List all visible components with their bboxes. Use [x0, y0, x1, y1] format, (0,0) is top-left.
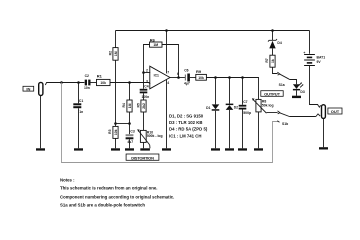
ground	[74, 148, 83, 150]
IN label	[23, 86, 34, 91]
resistor R1	[97, 74, 111, 86]
capacitor C1	[73, 99, 83, 114]
svg-text:100n: 100n	[142, 95, 150, 99]
svg-text:4µ7: 4µ7	[127, 140, 133, 144]
svg-text:R6: R6	[150, 37, 156, 42]
svg-text:C2: C2	[85, 74, 89, 78]
svg-text:C7: C7	[243, 100, 247, 104]
svg-text:R2: R2	[108, 51, 112, 55]
out jack tip contact	[316, 114, 320, 117]
potentiometer R8	[252, 98, 278, 113]
node D2 tap	[228, 76, 231, 79]
capacitor C4	[140, 84, 150, 99]
wire P2 to ground	[258, 112, 260, 148]
input jack J1	[39, 82, 48, 95]
wire feedback right	[162, 45, 179, 78]
svg-text:4µ7: 4µ7	[184, 82, 190, 86]
svg-text:D1: D1	[206, 106, 210, 110]
svg-text:10n: 10n	[84, 86, 90, 90]
svg-text:7: 7	[167, 71, 169, 75]
svg-text:Component numbering according: Component numbering according to origina…	[60, 195, 174, 200]
zener D4	[268, 39, 282, 48]
svg-text:10k: 10k	[198, 76, 204, 80]
svg-text:DISTORTION: DISTORTION	[131, 155, 154, 160]
svg-text:C3: C3	[130, 129, 134, 133]
node C1 tap	[77, 81, 80, 84]
svg-text:IC1: IC1	[154, 74, 159, 78]
svg-text:D1, D2 : SG 9150: D1, D2 : SG 9150	[169, 113, 204, 118]
ground	[140, 148, 150, 150]
svg-text:+: +	[149, 81, 151, 85]
svg-text:OUT: OUT	[331, 109, 340, 114]
wire C3 top	[129, 124, 131, 135]
battery BAT1	[303, 51, 325, 66]
svg-text:BAT1: BAT1	[317, 56, 326, 60]
svg-text:1n: 1n	[79, 110, 83, 114]
wire D1 to ground	[215, 111, 217, 149]
ground	[319, 147, 328, 149]
ground	[211, 148, 220, 150]
svg-text:1k: 1k	[271, 59, 275, 63]
capacitor C2	[84, 74, 91, 90]
node C7 tap	[241, 76, 244, 79]
ground	[162, 148, 171, 150]
svg-text:R5: R5	[136, 103, 140, 107]
ground	[238, 148, 247, 150]
wire D2 to ground	[229, 110, 231, 148]
wire S1a to LED	[289, 80, 296, 85]
resistor R7	[265, 55, 275, 67]
svg-text:C1: C1	[79, 99, 83, 103]
switch S1b	[277, 111, 289, 126]
wire R4 branch	[129, 83, 131, 101]
svg-text:6: 6	[177, 72, 179, 76]
wire LED to ground	[296, 90, 298, 95]
ground	[36, 148, 45, 150]
wire P1 to ground	[143, 142, 145, 148]
svg-text:D3: D3	[300, 90, 304, 94]
ground	[254, 148, 263, 150]
node bias right	[128, 122, 131, 125]
svg-text:C6: C6	[184, 68, 188, 72]
wire C1 drop	[78, 83, 80, 104]
out jack ring contact	[318, 105, 321, 108]
svg-text:R7: R7	[265, 58, 269, 62]
OUT label	[328, 108, 342, 114]
wire R1 to op-amp pin3	[110, 82, 149, 84]
LED D3	[293, 82, 305, 94]
svg-text:D2: D2	[234, 106, 238, 110]
wire R5 to P1	[143, 112, 145, 130]
resistor R2	[108, 48, 118, 61]
svg-text:Notes :: Notes :	[60, 177, 75, 182]
wire top rail	[116, 30, 310, 32]
wire C6 to R9	[190, 77, 196, 79]
capacitor C3	[126, 129, 135, 144]
wire R4 to bias node	[129, 112, 131, 124]
capacitor C7	[239, 100, 251, 115]
node pin2 junction	[142, 71, 145, 74]
node D1 tap	[214, 76, 217, 79]
op-amp IC1	[146, 66, 179, 89]
wire C4 to R5	[143, 93, 145, 100]
resistor R6	[150, 37, 163, 47]
capacitor C6	[184, 68, 190, 85]
diode D1	[206, 104, 219, 110]
wire jack sleeve to ground	[323, 118, 325, 147]
wire feedback left	[144, 45, 150, 73]
wire D1 drop	[215, 78, 217, 105]
ground	[225, 148, 234, 150]
svg-text:This schematic is redrawn from: This schematic is redrawn from an origin…	[60, 186, 157, 191]
wire output pin6	[170, 77, 185, 79]
svg-text:OUTPUT: OUTPUT	[264, 91, 281, 96]
wire C4 drop	[143, 73, 145, 89]
svg-text:R4: R4	[122, 103, 126, 107]
svg-text:S1a and S1b are a double-pole: S1a and S1b are a double-pole footswitch	[60, 202, 145, 207]
node pin7 rail	[165, 29, 168, 32]
svg-text:1M: 1M	[128, 103, 132, 108]
svg-text:1M: 1M	[153, 43, 158, 47]
potentiometer R10	[137, 129, 162, 148]
svg-text:500k - log: 500k - log	[147, 134, 163, 138]
svg-text:1M: 1M	[114, 51, 118, 56]
svg-text:10k: 10k	[100, 81, 106, 85]
wire R2 top	[115, 31, 117, 48]
svg-text:R9: R9	[196, 69, 202, 74]
resistor R4	[122, 100, 132, 112]
svg-text:2k2: 2k2	[142, 103, 146, 109]
wire pin2	[144, 72, 150, 74]
svg-text:S1b: S1b	[282, 122, 288, 126]
wire R9 to volume	[206, 78, 258, 100]
OUTPUT label	[261, 91, 283, 97]
svg-text:R1: R1	[97, 74, 103, 79]
wire R3 to ground	[115, 138, 117, 148]
svg-text:D4: D4	[277, 41, 281, 45]
wire C7 drop	[242, 78, 244, 105]
svg-text:IN: IN	[26, 87, 30, 92]
output jack J2	[322, 105, 326, 119]
node output junction	[177, 76, 180, 79]
svg-text:D3 : TLR 102 KB: D3 : TLR 102 KB	[169, 120, 202, 125]
wire C7 to ground	[242, 110, 244, 149]
svg-text:S1a: S1a	[279, 83, 285, 87]
node bias left	[114, 122, 117, 125]
resistor R5	[136, 100, 146, 112]
notes text	[60, 177, 174, 207]
svg-text:50k log: 50k log	[262, 104, 274, 108]
wire D2 drop	[229, 78, 231, 104]
wire jack sleeve to ground	[40, 96, 42, 149]
DISTORTION label	[126, 154, 159, 160]
wire rail to battery	[309, 31, 311, 54]
wire bias link	[116, 123, 130, 125]
node D4 rail	[271, 29, 274, 32]
wire D4 to R7	[272, 48, 274, 55]
wire C1 to ground	[78, 108, 80, 148]
ground	[292, 96, 301, 98]
svg-text:4: 4	[167, 81, 169, 85]
wire battery to out jack ring	[310, 66, 319, 105]
resistor R3	[108, 126, 118, 138]
wire input signal	[47, 82, 85, 84]
svg-text:10k: 10k	[114, 129, 118, 135]
wire S1b to out jack	[289, 116, 316, 118]
ground	[111, 148, 120, 150]
resistor R9	[196, 69, 207, 80]
wire R3 top	[115, 124, 117, 127]
wire pin7 to rail	[166, 31, 168, 74]
svg-text:IC1 : LM 741 CH: IC1 : LM 741 CH	[169, 133, 201, 138]
svg-text:9V: 9V	[317, 60, 322, 64]
diode D2	[226, 104, 238, 110]
node bypass tap	[60, 81, 63, 84]
svg-text:R3: R3	[108, 129, 112, 133]
switch S1a	[273, 67, 290, 87]
ground	[125, 148, 134, 150]
svg-text:D4 : RD 5A (ZPD 5): D4 : RD 5A (ZPD 5)	[169, 127, 208, 132]
node R4 tap	[128, 81, 131, 84]
wire rail to D4	[272, 31, 274, 41]
wire C3 to ground	[129, 139, 131, 148]
wire bypass bus	[62, 83, 278, 163]
svg-text:500p: 500p	[243, 111, 251, 115]
wire R2 bottom to bias node	[115, 60, 117, 123]
wire pin4 to ground	[166, 80, 168, 149]
svg-text:−: −	[149, 71, 151, 75]
parts list note	[169, 113, 208, 138]
wire C2 to R1	[90, 82, 97, 84]
